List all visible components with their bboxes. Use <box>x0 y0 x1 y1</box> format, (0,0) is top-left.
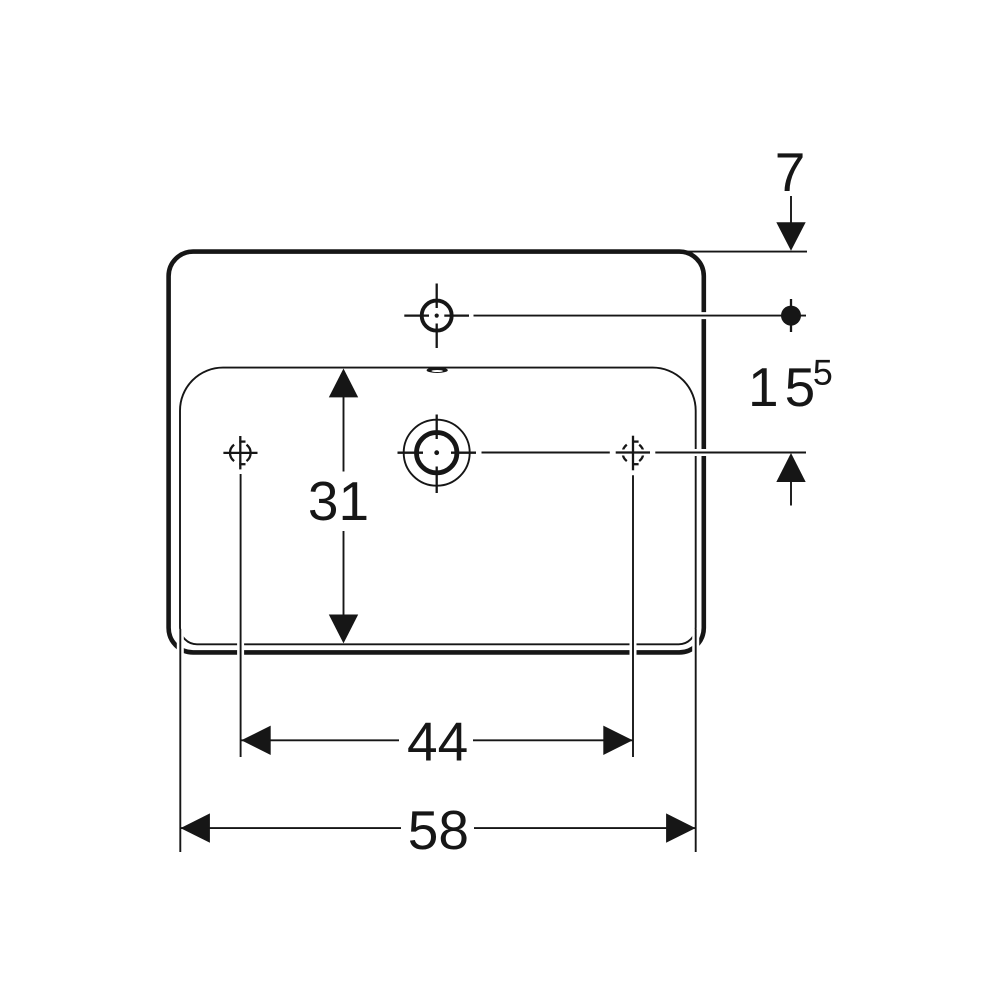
dimension 31 line and arrows <box>329 369 358 644</box>
extension line 58 left <box>177 629 184 852</box>
left fixing hole <box>223 436 257 469</box>
extension line below right hole <box>630 475 637 757</box>
svg-text:15: 15 <box>748 356 821 418</box>
drain <box>398 415 477 494</box>
dimension 15.5 label <box>748 356 831 418</box>
dimension 58 line and arrows <box>181 813 696 842</box>
overflow slot <box>427 367 448 373</box>
svg-text:58: 58 <box>408 799 469 861</box>
extension line top edge (right) <box>686 251 807 253</box>
svg-text:7: 7 <box>775 141 806 203</box>
dot terminator at tap line <box>781 299 801 332</box>
right fixing hole centre line <box>632 436 634 471</box>
extension line 58 right <box>692 629 699 852</box>
dimension 44 line and arrows <box>241 726 632 755</box>
extension line below left hole <box>237 474 244 757</box>
dimension 7 arrow <box>776 196 805 251</box>
svg-text:44: 44 <box>407 711 468 773</box>
svg-text:31: 31 <box>308 470 369 532</box>
dimension 15.5 arrow <box>776 453 805 506</box>
drain level extension line (right) <box>482 449 807 456</box>
right fixing hole dashed circle <box>623 442 644 465</box>
basin inner outline <box>180 368 696 645</box>
tap hole <box>404 284 469 349</box>
washbasin outer outline <box>169 252 704 653</box>
tap hole dimension line <box>474 312 807 319</box>
